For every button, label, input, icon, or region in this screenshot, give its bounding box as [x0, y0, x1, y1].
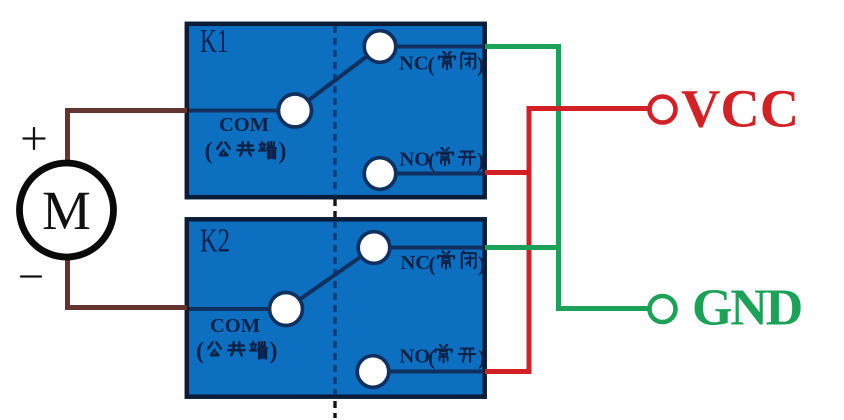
svg-text:): ): [279, 139, 287, 165]
svg-text:(: (: [428, 53, 435, 77]
svg-text:COM: COM: [210, 315, 260, 337]
svg-text:NC: NC: [401, 252, 431, 274]
svg-text:M: M: [42, 180, 91, 241]
svg-text:): ): [477, 53, 484, 77]
svg-text:): ): [478, 346, 485, 370]
svg-text:NC: NC: [399, 53, 429, 75]
svg-text:): ): [477, 149, 484, 173]
svg-text:(: (: [205, 139, 213, 165]
svg-text:K1: K1: [200, 23, 229, 60]
svg-text:(: (: [429, 252, 436, 276]
svg-text:(: (: [428, 149, 435, 173]
svg-text:): ): [270, 339, 278, 365]
svg-text:GND: GND: [692, 280, 802, 337]
svg-text:NO: NO: [400, 346, 431, 368]
svg-text:COM: COM: [219, 114, 269, 136]
svg-text:(: (: [196, 339, 204, 365]
svg-text:): ): [478, 252, 485, 276]
svg-text:VCC: VCC: [681, 78, 799, 139]
svg-text:K2: K2: [200, 223, 230, 260]
svg-text:NO: NO: [400, 149, 431, 171]
svg-text:(: (: [428, 346, 435, 370]
